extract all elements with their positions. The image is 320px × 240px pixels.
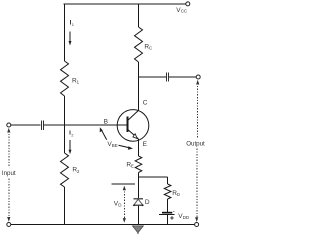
wire diode to rail (138, 205, 140, 224)
resistor Rc (135, 27, 143, 62)
transistor emitter arrow (133, 134, 137, 139)
svg-text:2: 2 (71, 132, 74, 137)
terminal input bottom (7, 223, 11, 227)
svg-text:CC: CC (181, 9, 188, 14)
svg-text:C: C (149, 45, 153, 50)
diode D (133, 199, 143, 206)
wire RD top (167, 177, 169, 184)
wire Rc top (138, 4, 140, 27)
wire top rail (64, 3, 186, 5)
wire capacitor to base (44, 124, 128, 126)
svg-text:D: D (177, 192, 180, 197)
wire R2 branch upper (64, 125, 66, 153)
label VBE with arrows (107, 141, 117, 148)
wire input to capacitor (11, 124, 41, 126)
Output label (186, 141, 205, 148)
svg-text:D: D (118, 202, 122, 207)
wire bottom rail (11, 224, 195, 226)
svg-text:Input: Input (2, 170, 16, 177)
measurement VD reference line (112, 183, 136, 185)
terminal VCC (186, 2, 190, 6)
label B (104, 118, 108, 125)
node VCC label (176, 7, 188, 14)
wire emitter down (138, 139, 140, 156)
svg-text:C: C (143, 99, 148, 106)
svg-text:2: 2 (77, 169, 80, 174)
terminal output top (196, 75, 200, 79)
svg-text:E: E (143, 141, 148, 148)
terminal output bottom (195, 223, 199, 227)
input port dashed arrow (7, 128, 10, 222)
terminal input top (7, 123, 11, 127)
battery VDD (159, 211, 174, 220)
resistor R1 (61, 61, 69, 96)
svg-text:DD: DD (183, 215, 190, 220)
wire capacitor to output terminal (169, 76, 196, 78)
Input label (2, 170, 16, 177)
resistor RD (164, 184, 171, 199)
transistor base bar (127, 117, 129, 133)
measurement VD dashed arrow (123, 186, 126, 223)
capacitor C1 input coupling (42, 121, 44, 130)
transistor Q1 body (117, 110, 149, 142)
resistor R2 (61, 153, 69, 187)
capacitor C2 output coupling (166, 73, 168, 82)
wire left branch lower (64, 187, 66, 225)
svg-text:BE: BE (112, 143, 118, 148)
wire left branch upper (64, 4, 66, 61)
svg-text:1: 1 (72, 22, 75, 27)
label C (143, 99, 148, 106)
wire junction to output capacitor (139, 76, 166, 78)
current arrow I1 (69, 20, 75, 46)
wire battery to rail (167, 215, 169, 225)
ground (133, 226, 144, 234)
transistor collector lead (128, 110, 139, 120)
svg-text:B: B (104, 118, 108, 125)
resistor RE (135, 156, 142, 173)
current arrow I2 (69, 130, 75, 154)
wire RE to junction (138, 173, 140, 178)
label E (143, 141, 148, 148)
svg-text:E: E (131, 164, 134, 169)
output port dashed arrow (195, 80, 199, 222)
wire RD to battery (167, 199, 169, 212)
transistor emitter lead (128, 129, 139, 139)
wire collector branch (138, 62, 140, 111)
svg-text:1: 1 (77, 80, 80, 85)
wire diode top (138, 177, 140, 199)
svg-text:Output: Output (186, 141, 205, 148)
wire junction horizontal (139, 176, 168, 178)
svg-text:D: D (145, 199, 150, 206)
wire left branch mid (64, 96, 66, 125)
